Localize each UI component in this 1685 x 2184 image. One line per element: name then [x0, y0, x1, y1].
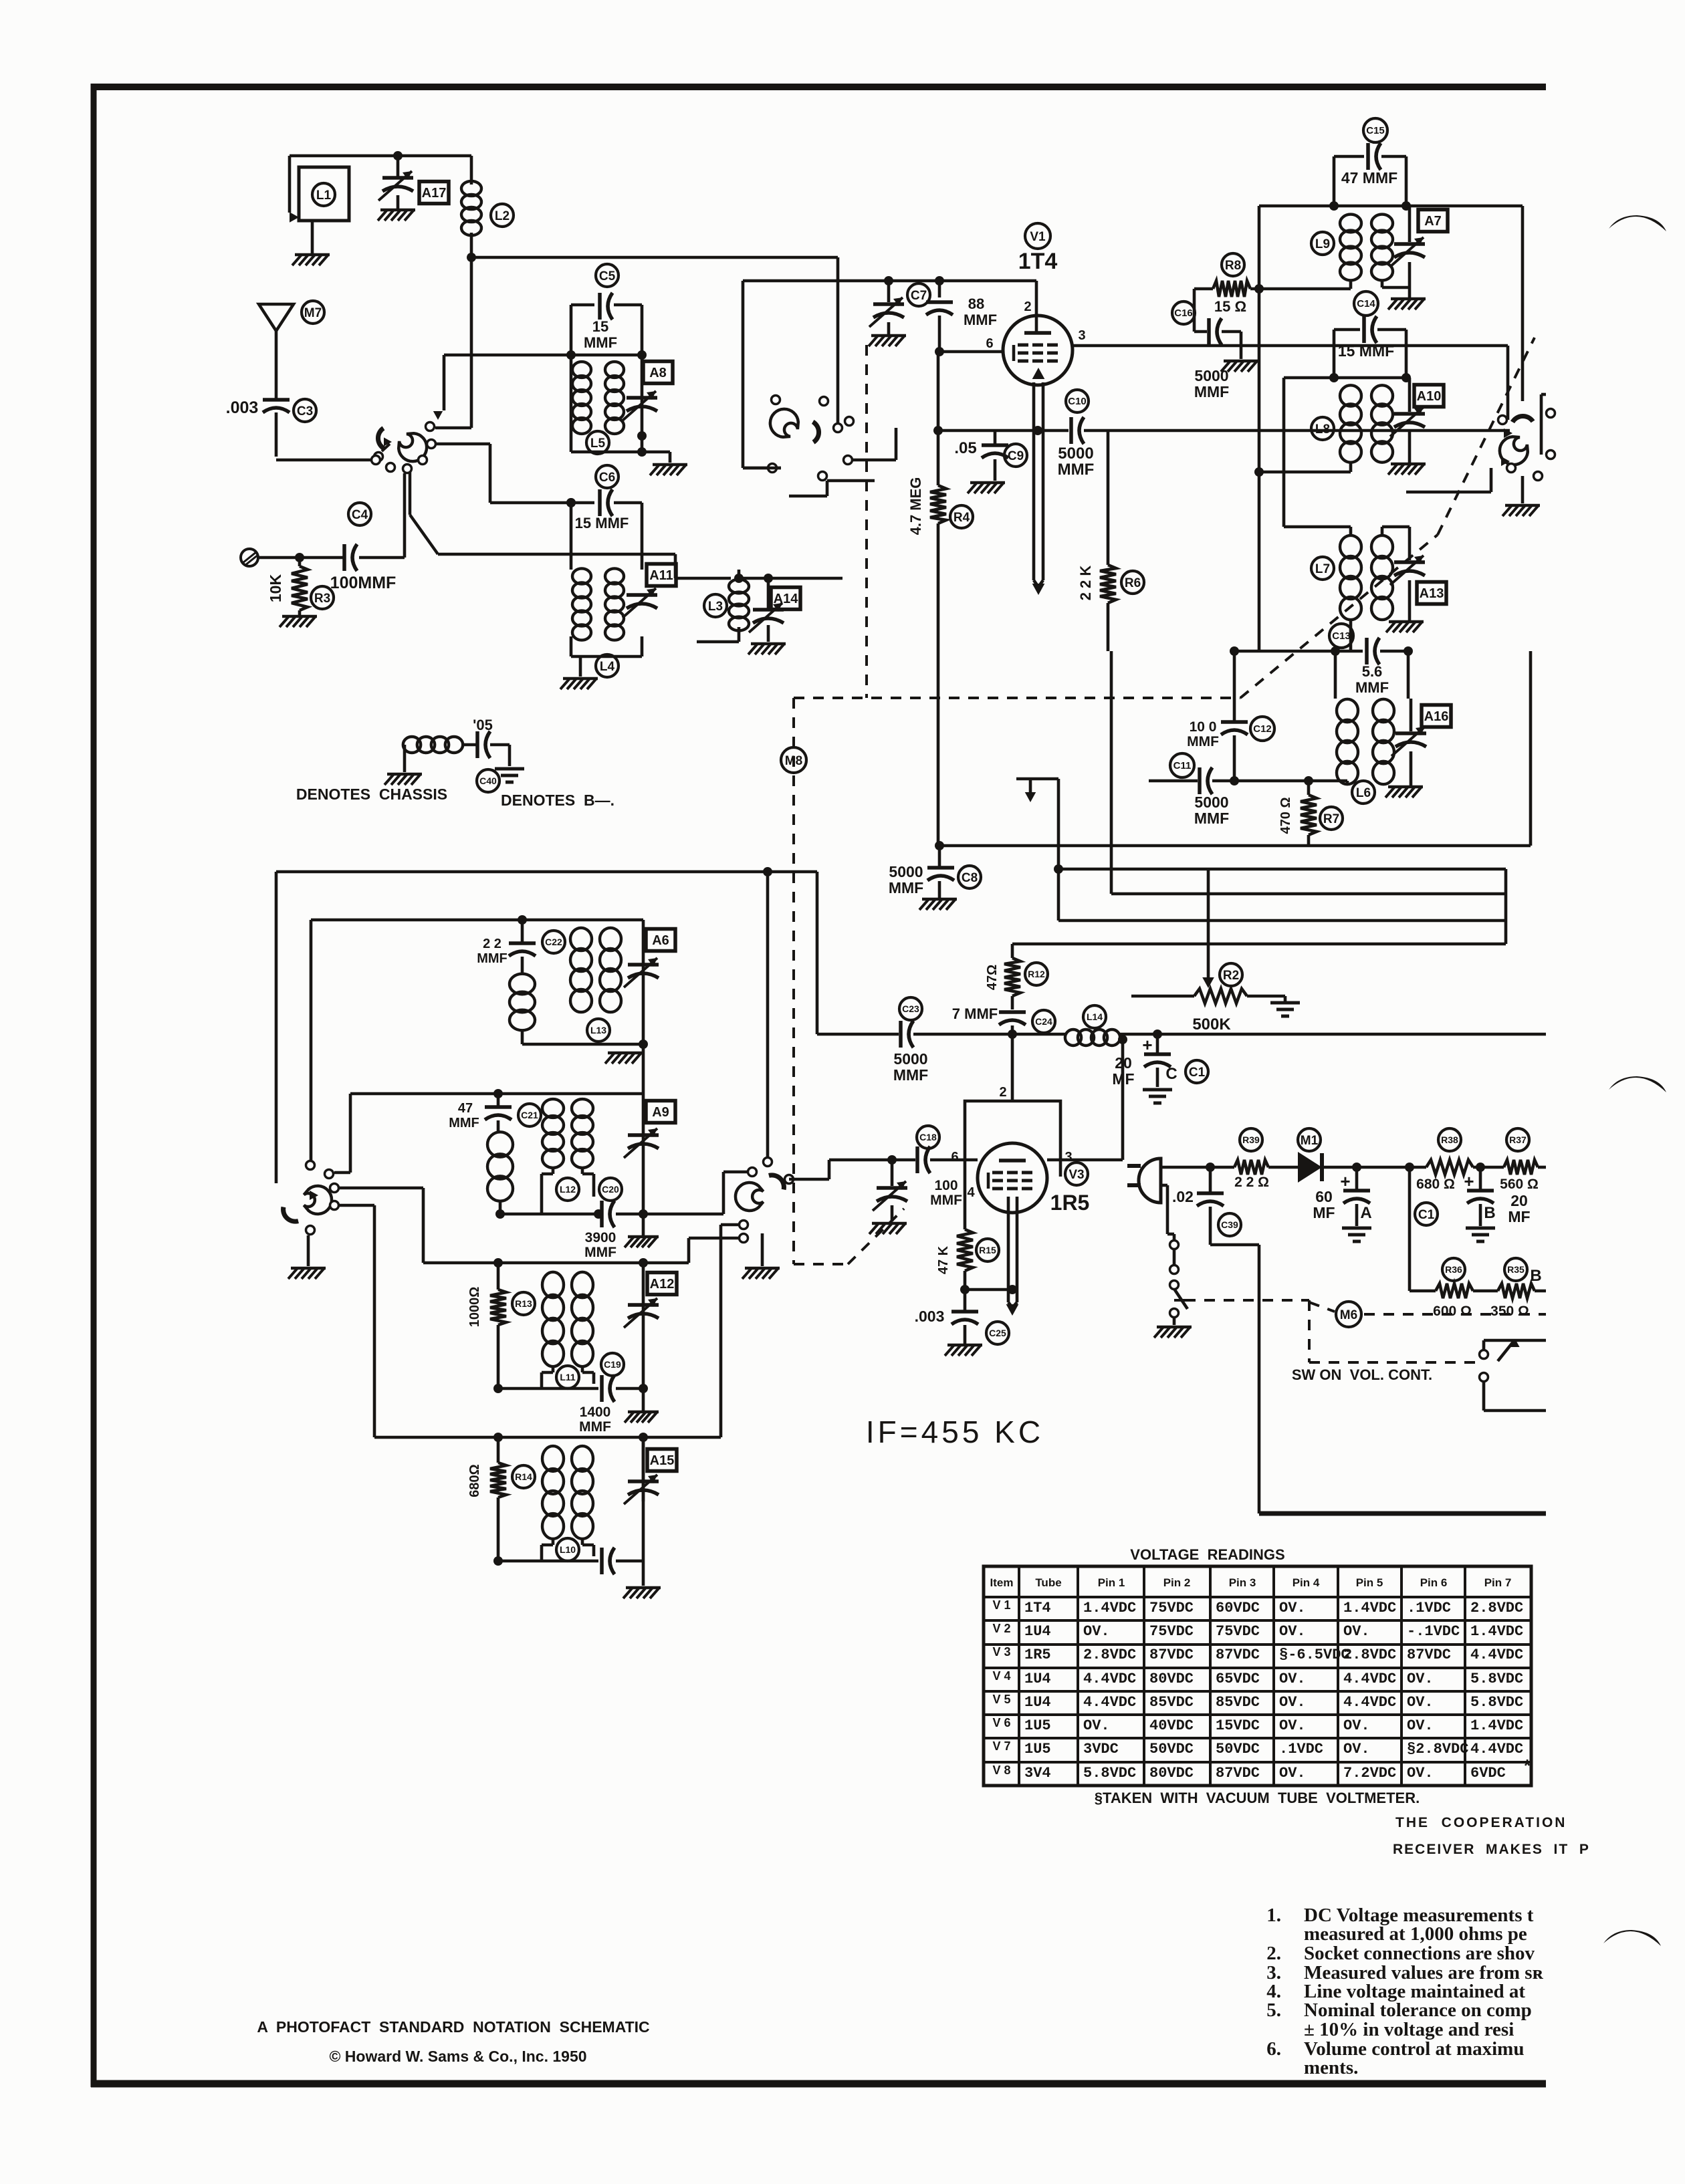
- svg-text:V3: V3: [1069, 1168, 1084, 1182]
- svg-text:L1: L1: [316, 189, 332, 203]
- avc arrow: [1016, 779, 1058, 802]
- wire R37 right: [1538, 1166, 1546, 1169]
- svg-text:R3: R3: [314, 592, 330, 606]
- notes list: [1266, 1905, 1543, 2078]
- svg-text:C25: C25: [989, 1328, 1006, 1338]
- svg-text:MMF: MMF: [1058, 461, 1095, 479]
- label R38 value: [1416, 1177, 1455, 1192]
- resistor R36: [1436, 1284, 1473, 1298]
- potentiometer R2: [1131, 989, 1273, 1003]
- wire C11 left: [1149, 779, 1198, 783]
- svg-text:680Ω: 680Ω: [467, 1464, 482, 1497]
- wire C26 right: [616, 1561, 643, 1586]
- wire C16 gnd: [1240, 332, 1243, 359]
- wire SW2b plate lead: [1506, 346, 1510, 420]
- svg-text:1U4: 1U4: [1024, 1671, 1051, 1687]
- wire C13 row: [1230, 646, 1413, 656]
- label C20: [599, 1178, 622, 1201]
- cooperation text: [1393, 1815, 1590, 1857]
- L10 bottom: [493, 1556, 598, 1566]
- svg-text:C3: C3: [297, 404, 313, 418]
- wire L1 bottom lead: [311, 221, 314, 255]
- svg-text:OV.: OV.: [1279, 1765, 1306, 1782]
- SW2 frame: [743, 281, 842, 468]
- label C3 value: [226, 398, 259, 417]
- label C12: [1250, 717, 1274, 741]
- wire C3 down: [275, 412, 278, 457]
- L11 bottom: [493, 1384, 598, 1393]
- L12 left riser: [334, 1094, 350, 1173]
- svg-text:MMF: MMF: [579, 1419, 611, 1435]
- SW1 contacts: [0, 0, 1, 1]
- svg-text:OV.: OV.: [1407, 1694, 1434, 1711]
- SW4 arrows: [310, 1191, 318, 1200]
- label V1: [1025, 223, 1050, 249]
- label C23: [899, 997, 922, 1020]
- svg-text:OV.: OV.: [1279, 1671, 1306, 1687]
- antenna M7: [259, 304, 294, 400]
- svg-text:680 Ω: 680 Ω: [1416, 1177, 1455, 1192]
- label A16: [1422, 705, 1451, 727]
- label R6: [1121, 571, 1144, 594]
- L12 bottom: [495, 1209, 603, 1219]
- resistor R3: [292, 558, 308, 616]
- svg-text:15 MMF: 15 MMF: [1338, 342, 1394, 360]
- svg-text:75VDC: 75VDC: [1149, 1600, 1194, 1616]
- wire C3 to SW1: [276, 459, 371, 462]
- svg-text:50VDC: 50VDC: [1216, 1741, 1260, 1757]
- SW1 arrows: [382, 429, 419, 451]
- resistor R13: [490, 1263, 506, 1388]
- label DENOTES CHASSIS: [296, 785, 447, 803]
- dashed gang bottom: [794, 1209, 904, 1264]
- svg-text:C7: C7: [911, 289, 927, 303]
- svg-text:6VDC: 6VDC: [1470, 1765, 1506, 1782]
- svg-text:± 10% in voltage and resi: ± 10% in voltage and resi: [1304, 2019, 1514, 2040]
- wire C23 row: [817, 1033, 899, 1036]
- label C39: [1218, 1213, 1241, 1236]
- svg-text:C21: C21: [521, 1110, 538, 1120]
- ground under SW5: [742, 1268, 780, 1279]
- label L5: [586, 431, 609, 454]
- wire L8 top: [1284, 373, 1411, 382]
- coil L6 secondary: [1373, 699, 1394, 784]
- label IF=455 KC: [866, 1415, 1044, 1449]
- ground under C7: [869, 336, 906, 346]
- capacitor C25: [951, 1290, 978, 1344]
- svg-text:M1: M1: [1301, 1134, 1319, 1148]
- svg-text:C8: C8: [962, 871, 978, 885]
- svg-text:OV.: OV.: [1083, 1623, 1110, 1640]
- svg-text:L3: L3: [708, 600, 723, 614]
- svg-text:15VDC: 15VDC: [1216, 1717, 1260, 1734]
- svg-text:C40: C40: [479, 775, 497, 786]
- svg-text:7 MMF: 7 MMF: [952, 1005, 998, 1022]
- copyright line: [329, 2048, 586, 2065]
- wire L11 brackets: [542, 1365, 594, 1388]
- wire A17 lead: [397, 156, 400, 178]
- svg-text:.1VDC: .1VDC: [1407, 1600, 1451, 1616]
- svg-text:R35: R35: [1507, 1264, 1525, 1275]
- svg-text:L6: L6: [1356, 786, 1371, 800]
- label 1R5: [1050, 1191, 1090, 1215]
- label L10: [556, 1538, 579, 1561]
- label C24: [1032, 1010, 1055, 1033]
- power switch contacts: [1170, 1241, 1179, 1290]
- svg-text:Pin 2: Pin 2: [1163, 1576, 1191, 1589]
- resistor R8: [1194, 281, 1250, 297]
- svg-text:2 2 Ω: 2 2 Ω: [1234, 1175, 1269, 1190]
- capacitor C9: [982, 431, 1008, 481]
- bus right vertical: [1504, 869, 1508, 944]
- coil L9 secondary: [1371, 215, 1393, 281]
- label R14: [512, 1465, 535, 1488]
- label C6: [596, 465, 619, 488]
- wire L2 bottom lead: [470, 233, 473, 257]
- wire A15 gnd: [642, 1437, 645, 1501]
- svg-text:4.4VDC: 4.4VDC: [1343, 1671, 1396, 1687]
- svg-text:15 Ω: 15 Ω: [1214, 298, 1246, 315]
- trimmer capacitor A8: [623, 391, 657, 420]
- wire C19 right: [616, 1384, 648, 1393]
- voltage readings table: [984, 1546, 1531, 1786]
- legend capacitor C40: [477, 731, 510, 758]
- L13 top line: [311, 915, 643, 925]
- svg-text:3900: 3900: [585, 1230, 616, 1245]
- label C1b: [1415, 1203, 1438, 1225]
- page border frame top: [91, 84, 1546, 90]
- V1 filament arrow: [1032, 368, 1045, 595]
- label M6: [1336, 1302, 1361, 1327]
- capacitor C24: [999, 1012, 1026, 1101]
- svg-text:OV.: OV.: [1407, 1765, 1434, 1782]
- ground under L6: [1385, 787, 1423, 798]
- svg-text:3V4: 3V4: [1024, 1765, 1051, 1782]
- svg-text:C15: C15: [1366, 125, 1385, 136]
- svg-text:OV.: OV.: [1083, 1717, 1110, 1734]
- svg-text:1.4VDC: 1.4VDC: [1083, 1600, 1136, 1616]
- pin2 V3: [999, 1085, 1006, 1100]
- capacitor C23: [901, 1021, 1012, 1048]
- rotary switch SW4: [279, 1161, 338, 1235]
- wire R38 to R37: [1473, 1163, 1504, 1172]
- svg-text:MMF: MMF: [1355, 679, 1389, 696]
- svg-text:87VDC: 87VDC: [1407, 1647, 1451, 1663]
- ground under R3: [279, 616, 317, 627]
- diode M1: [1298, 1152, 1322, 1183]
- svg-text:DENOTES CHASSIS: DENOTES CHASSIS: [296, 785, 447, 803]
- scan mark 2: [1609, 1076, 1666, 1092]
- wire R39 to M1: [1268, 1166, 1298, 1169]
- capacitor C39: [1197, 1167, 1224, 1245]
- legend B- ground: [495, 769, 524, 782]
- svg-text:2.8VDC: 2.8VDC: [1470, 1600, 1523, 1616]
- label C1: [1186, 1060, 1208, 1083]
- label C7: [907, 283, 930, 306]
- coil L8 primary: [1340, 385, 1361, 462]
- svg-text:C: C: [1165, 1065, 1177, 1083]
- SW5 feed riser: [763, 867, 772, 1160]
- label C4 value: [330, 574, 397, 592]
- wire L3 ground lead: [767, 625, 770, 642]
- svg-text:'05: '05: [473, 717, 493, 733]
- label R37: [1506, 1128, 1529, 1151]
- svg-text:OV.: OV.: [1279, 1694, 1306, 1711]
- svg-text:600 Ω: 600 Ω: [1433, 1304, 1472, 1319]
- page border frame bottom: [91, 2080, 1546, 2088]
- pin 6 label: [986, 336, 993, 351]
- coil L12 secondary: [572, 1099, 593, 1168]
- label C10 value: [1058, 445, 1095, 479]
- svg-text:2.8VDC: 2.8VDC: [1083, 1647, 1136, 1663]
- label L9: [1311, 232, 1334, 255]
- vol switch: [1480, 1339, 1547, 1411]
- svg-text:1U4: 1U4: [1024, 1694, 1051, 1711]
- svg-text:DENOTES B—.: DENOTES B—.: [501, 792, 614, 809]
- ground R2: [1270, 996, 1300, 1016]
- svg-text:R36: R36: [1445, 1264, 1462, 1275]
- contact: [374, 453, 383, 461]
- svg-text:85VDC: 85VDC: [1216, 1694, 1260, 1711]
- ground under L9: [1388, 299, 1426, 310]
- svg-text:A16: A16: [1424, 709, 1449, 724]
- svg-text:A: A: [1360, 1204, 1371, 1222]
- resistor R15: [957, 1177, 973, 1290]
- pin6 V3: [951, 1150, 958, 1165]
- label A12: [647, 1273, 677, 1295]
- resistor R4: [930, 352, 946, 846]
- svg-text:L5: L5: [590, 437, 606, 451]
- label L8: [1311, 417, 1334, 440]
- ground under L5: [650, 465, 687, 475]
- label C18 value: [930, 1178, 962, 1208]
- svg-text:M7: M7: [304, 306, 322, 320]
- wire V3 plate: [1047, 1035, 1127, 1160]
- trimmer capacitor A7: [1390, 206, 1425, 267]
- pin3 V3: [1064, 1150, 1072, 1165]
- resistor R7: [1301, 781, 1317, 846]
- svg-text:L2: L2: [495, 209, 510, 223]
- svg-text:A9: A9: [652, 1105, 669, 1120]
- svg-text:15: 15: [592, 318, 608, 335]
- ground C1c: [1143, 1090, 1172, 1103]
- label A17: [419, 182, 449, 204]
- svg-text:3: 3: [1078, 328, 1085, 343]
- L5 bottom bracket: [571, 355, 647, 452]
- capacitor C22: [509, 920, 536, 975]
- svg-text:OV.: OV.: [1279, 1717, 1306, 1734]
- node 88mmf: [935, 276, 944, 285]
- svg-text:4.7 MEG: 4.7 MEG: [907, 477, 924, 535]
- svg-text:*: *: [1524, 1755, 1531, 1776]
- label C13 value: [1355, 663, 1389, 696]
- resistor R35: [1498, 1284, 1535, 1298]
- osc box left: [275, 872, 278, 1183]
- svg-text:47Ω: 47Ω: [985, 965, 1000, 990]
- svg-text:50VDC: 50VDC: [1149, 1741, 1194, 1757]
- capacitor C26: [602, 1548, 614, 1574]
- node C7: [884, 276, 893, 285]
- coil L7 primary: [1340, 535, 1361, 620]
- svg-text:10 0: 10 0: [1190, 719, 1217, 735]
- label R15: [976, 1239, 999, 1261]
- capacitor C19: [602, 1375, 614, 1402]
- dashed M6 left: [1185, 1300, 1335, 1312]
- scan mark 3: [1603, 1930, 1661, 1946]
- capacitor C1 C: [1142, 1034, 1177, 1087]
- svg-text:MMF: MMF: [584, 1245, 616, 1260]
- svg-text:1T4: 1T4: [1024, 1600, 1051, 1616]
- label R3: [311, 586, 334, 609]
- svg-text:MF: MF: [1112, 1070, 1134, 1088]
- svg-text:3: 3: [1064, 1150, 1072, 1165]
- capacitor C10: [1071, 417, 1110, 444]
- label C39 value: [1172, 1188, 1194, 1205]
- C15 box: [1334, 156, 1406, 206]
- svg-text:R37: R37: [1509, 1134, 1527, 1145]
- label C19: [601, 1353, 624, 1376]
- power switch gnd: [1154, 1317, 1192, 1338]
- label V3: [1065, 1163, 1088, 1185]
- SW5 ground stem: [761, 1233, 764, 1266]
- svg-text:R12: R12: [1028, 969, 1045, 979]
- svg-text:47: 47: [458, 1101, 473, 1116]
- svg-text:88: 88: [968, 295, 984, 312]
- svg-text:.1VDC: .1VDC: [1279, 1741, 1323, 1757]
- svg-text:C4: C4: [352, 508, 368, 522]
- dashed M6 right: [1364, 1313, 1546, 1316]
- svg-text:V1: V1: [1030, 230, 1046, 244]
- wire L3 bottom: [697, 627, 739, 642]
- label R2: [1220, 963, 1242, 986]
- wire plug top: [1161, 1163, 1234, 1172]
- svg-text:.003: .003: [226, 398, 259, 417]
- phono jack: [241, 549, 258, 566]
- wire A7 gnd: [1408, 262, 1412, 297]
- label M7: [302, 301, 324, 324]
- svg-text:IF=455 KC: IF=455 KC: [866, 1415, 1044, 1449]
- wire SW4 to L11: [334, 1188, 423, 1263]
- svg-text:C1: C1: [1418, 1208, 1435, 1222]
- coil L13 aux: [510, 974, 535, 1031]
- SW2b arrows: [1501, 429, 1512, 466]
- wire L14 right: [1119, 1029, 1546, 1039]
- label R12: [1025, 963, 1048, 985]
- coil L11 secondary: [572, 1272, 593, 1366]
- L13 left riser: [310, 920, 313, 1162]
- table footnote: [1095, 1790, 1420, 1806]
- svg-text:RECEIVER MAKES IT P: RECEIVER MAKES IT P: [1393, 1842, 1590, 1857]
- capacitor C4: [344, 544, 357, 571]
- wire jack to C4: [258, 556, 344, 560]
- coil L12 primary: [542, 1099, 564, 1168]
- coil L12 aux: [487, 1132, 513, 1201]
- dashed vol sw: [1309, 1300, 1482, 1362]
- label L13: [587, 1019, 610, 1042]
- wire L9 bottom: [1250, 279, 1410, 289]
- svg-text:87VDC: 87VDC: [1216, 1765, 1260, 1782]
- svg-text:4: 4: [967, 1185, 975, 1200]
- wire L11 to SW5: [689, 1238, 744, 1263]
- label C15 value: [1341, 169, 1397, 187]
- rail x1883 lower: [0, 0, 1, 1]
- ground under L1: [292, 255, 330, 265]
- trimmer capacitor A9: [624, 1128, 659, 1158]
- label R39 value: [1234, 1175, 1269, 1190]
- label C19 value: [579, 1405, 611, 1435]
- label DENOTES B-: [501, 792, 614, 809]
- label B value: [1508, 1192, 1530, 1225]
- wire bus drop: [836, 257, 840, 281]
- svg-text:500K: 500K: [1192, 1015, 1231, 1034]
- osc box top: [276, 870, 817, 874]
- svg-text:measured at 1,000 ohms pe: measured at 1,000 ohms pe: [1304, 1923, 1527, 1945]
- coil L8 secondary: [1371, 385, 1393, 462]
- wire R12 top: [1011, 944, 1014, 958]
- rail B+ top right: [1406, 206, 1523, 401]
- capacitor C20: [602, 1201, 614, 1227]
- label C3: [294, 399, 316, 422]
- wire L7 bottom: [1349, 618, 1353, 651]
- svg-text:OV.: OV.: [1279, 1600, 1306, 1616]
- svg-text:1R5: 1R5: [1024, 1647, 1051, 1663]
- svg-text:4.4VDC: 4.4VDC: [1343, 1694, 1396, 1711]
- L5 block frame: [566, 305, 647, 360]
- tube V3 1R5: [978, 1143, 1047, 1213]
- label M1: [1298, 1128, 1321, 1151]
- pin4 V3: [967, 1185, 975, 1200]
- svg-text:MF: MF: [1508, 1208, 1530, 1225]
- label C11: [1170, 753, 1194, 777]
- label C40 value: [473, 717, 493, 733]
- label A11: [647, 564, 676, 586]
- coil L10 primary: [542, 1446, 564, 1539]
- svg-text:+: +: [1464, 1171, 1474, 1191]
- SW5 wire out: [789, 1160, 892, 1179]
- wire L9 top: [1259, 201, 1411, 211]
- label C40: [477, 769, 499, 792]
- wire R15 C25 row: [960, 1285, 1017, 1294]
- ground under A: [1342, 1228, 1371, 1241]
- label C6 value: [575, 515, 629, 531]
- svg-text:C9: C9: [1008, 449, 1024, 463]
- long audio runner: [1259, 1245, 1546, 1513]
- svg-text:.003: .003: [915, 1308, 945, 1325]
- label M8: [781, 747, 806, 773]
- label R4 value: [907, 477, 924, 535]
- svg-text:V 8: V 8: [992, 1764, 1010, 1777]
- label C11 value: [1194, 794, 1229, 827]
- label C9: [1004, 444, 1027, 467]
- wire L12 aux bottom: [499, 1200, 502, 1214]
- node R3: [295, 553, 304, 562]
- wire L5 ground stub: [642, 452, 670, 463]
- label C20 value: [584, 1230, 616, 1260]
- resistor R6: [1100, 431, 1116, 651]
- ground under C19: [625, 1388, 659, 1423]
- svg-text:6.: 6.: [1266, 2038, 1281, 2060]
- svg-text:4.4VDC: 4.4VDC: [1083, 1671, 1136, 1687]
- ground under C9: [968, 483, 1005, 493]
- label C22: [542, 931, 565, 953]
- L4 block frame: [571, 503, 642, 570]
- label R37 value: [1500, 1177, 1539, 1192]
- svg-text:V 5: V 5: [992, 1693, 1010, 1706]
- wire L1 left drop: [290, 156, 299, 223]
- svg-text:1.4VDC: 1.4VDC: [1343, 1600, 1396, 1616]
- scan mark 1: [1609, 215, 1666, 231]
- rail det column: [642, 920, 645, 1561]
